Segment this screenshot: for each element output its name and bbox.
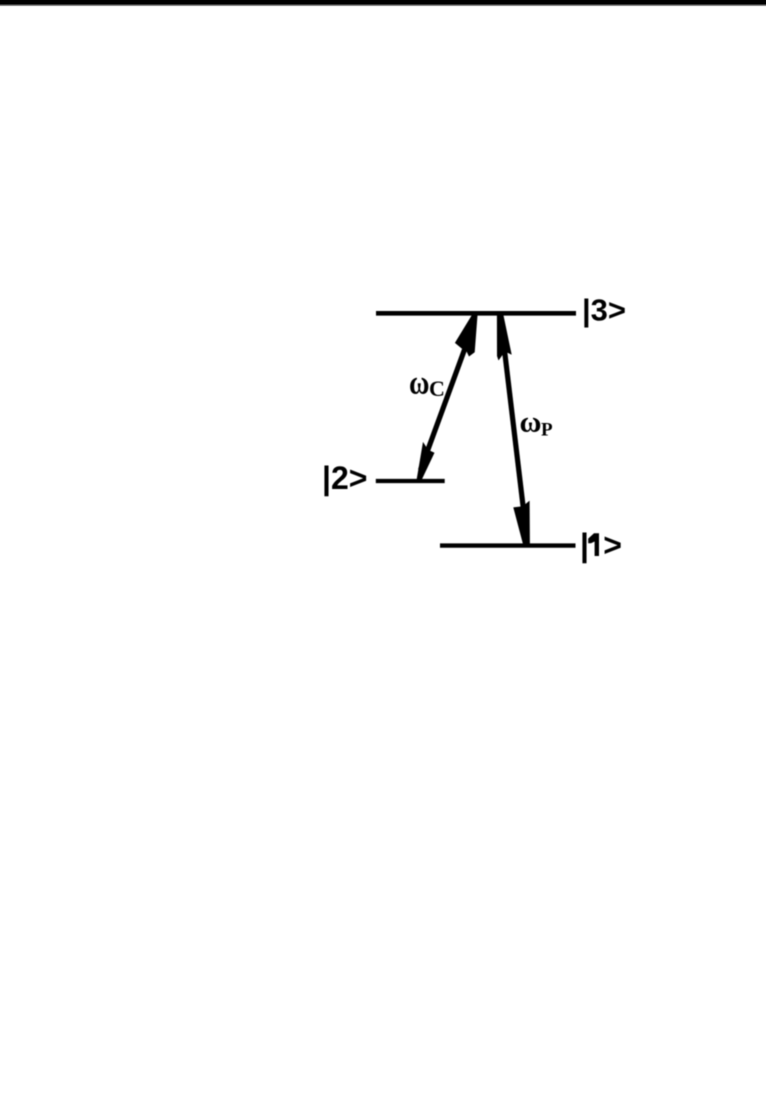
label |1> digit 1 (no-foot style) (588, 533, 599, 556)
wC arrowhead top (455, 314, 478, 357)
wC arrowhead bottom (416, 442, 434, 482)
level line |1> (440, 543, 576, 547)
svg-text:|: | (580, 527, 589, 563)
scan edge bar (top) (0, 0, 766, 4)
svg-text:>: > (603, 527, 622, 563)
wP arrowhead bottom (513, 501, 530, 547)
svg-text:P: P (541, 420, 553, 441)
svg-text:|3>: |3> (582, 293, 626, 328)
svg-text:|2>: |2> (322, 460, 367, 496)
svg-text:ω: ω (409, 363, 429, 401)
coupling arrow wC shaft (421, 325, 474, 470)
probe arrow wP shaft (502, 325, 527, 535)
level line |2> (376, 479, 445, 483)
svg-text:C: C (429, 376, 445, 401)
scan edge bar soft bottom edge (0, 4, 766, 6)
svg-text:ω: ω (520, 406, 542, 439)
wP arrowhead top (497, 314, 512, 361)
level line |3> (376, 311, 576, 316)
